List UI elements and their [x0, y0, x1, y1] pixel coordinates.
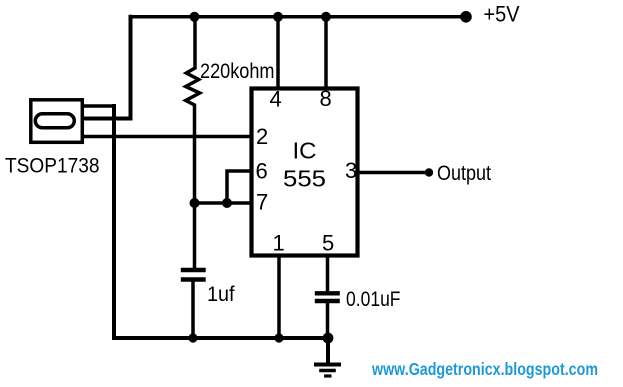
junction dot resistor / pin 7 node: [190, 198, 200, 208]
svg-text:4: 4: [270, 87, 282, 112]
terminal dot output: [425, 168, 433, 176]
capacitor C2 0.01uF: [317, 293, 338, 338]
svg-text:0.01uF: 0.01uF: [346, 288, 401, 311]
svg-text:7: 7: [256, 190, 268, 215]
svg-text:555: 555: [283, 166, 326, 192]
capacitor C1 1uf: [183, 270, 204, 338]
wire TSOP ground pin stub: [84, 104, 114, 108]
IC U1 555 body: [252, 89, 358, 256]
junction dot pin 6 / pin 7 node: [222, 198, 232, 208]
svg-text:1uf: 1uf: [207, 283, 235, 306]
svg-text:IC: IC: [293, 138, 317, 164]
svg-text:www.Gadgetronicx.blogspot.com: www.Gadgetronicx.blogspot.com: [371, 359, 598, 379]
wire +5V top rail: [131, 15, 467, 19]
wire ground stem: [326, 338, 330, 363]
sensor TSOP1738 lens: [35, 114, 74, 128]
junction dot pin 1 on ground rail: [274, 333, 283, 342]
svg-text:3: 3: [345, 158, 357, 183]
wire IC pin 8 to +5V rail: [324, 17, 328, 88]
terminal dot +5V: [460, 11, 472, 23]
junction dot pin 4 on +5V rail: [273, 12, 283, 22]
wire TSOP supply pin up to +5V rail: [84, 17, 131, 119]
svg-text:220kohm: 220kohm: [200, 60, 275, 83]
wire IC pin 1 to ground rail: [277, 256, 281, 338]
svg-text:TSOP1738: TSOP1738: [5, 155, 100, 178]
wire ground bottom rail: [114, 336, 328, 340]
svg-text:+5V: +5V: [484, 2, 520, 27]
wire TSOP output to IC pin 2: [84, 135, 251, 139]
wire IC pin 4 to +5V rail: [276, 17, 280, 88]
wire IC pin 6 to pin 7: [227, 171, 251, 203]
svg-text:1: 1: [273, 231, 285, 256]
wire IC pin 5 down to C2: [326, 256, 330, 291]
svg-text:Output: Output: [437, 162, 491, 185]
svg-text:2: 2: [256, 124, 268, 149]
junction dot C1 on ground rail: [188, 333, 197, 342]
wire IC pin 3 to output terminal: [358, 171, 427, 175]
junction dot resistor top on +5V rail: [190, 12, 200, 22]
junction dot ground node: [323, 333, 334, 344]
wire IC pin 7 to resistor node: [195, 201, 252, 205]
svg-text:5: 5: [322, 231, 334, 256]
svg-text:8: 8: [320, 86, 332, 111]
sensor TSOP1738 body: [31, 100, 83, 143]
ground symbol: [316, 365, 339, 377]
wire TSOP ground vertical: [112, 106, 116, 338]
resistor R1 220kohm: [186, 17, 200, 268]
junction dot pin 8 on +5V rail: [321, 12, 331, 22]
svg-text:6: 6: [256, 159, 268, 184]
